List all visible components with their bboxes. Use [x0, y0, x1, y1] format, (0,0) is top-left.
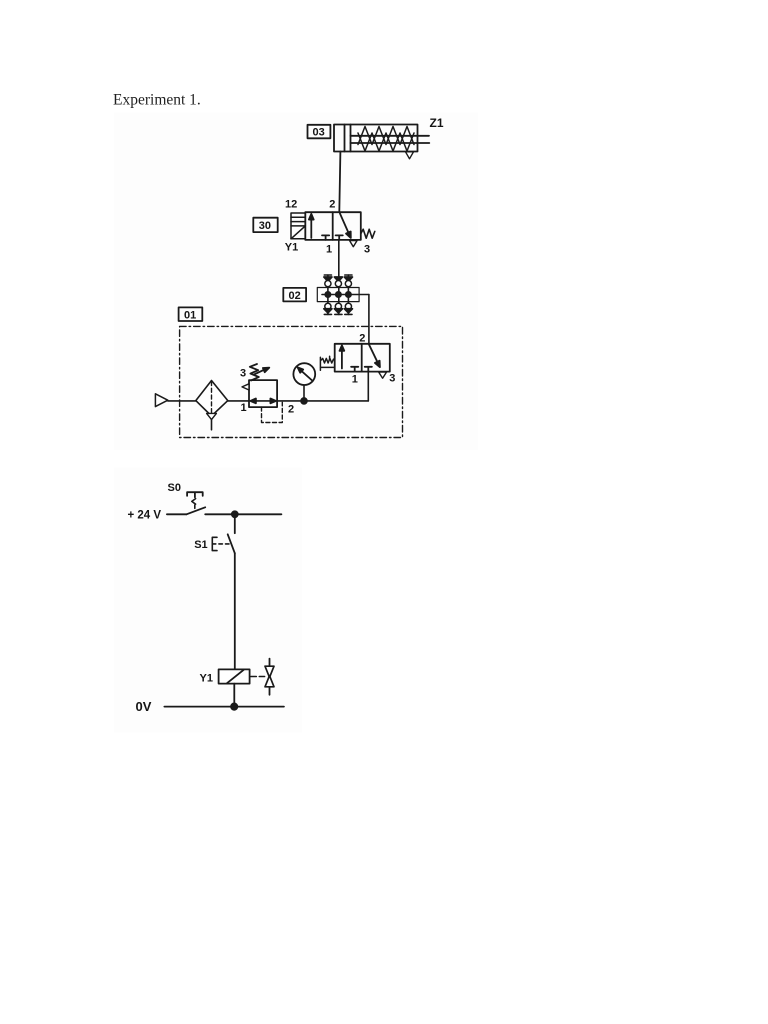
svg-text:12: 12 — [285, 199, 297, 211]
svg-text:3: 3 — [240, 368, 246, 380]
svg-text:Y1: Y1 — [285, 242, 298, 254]
svg-text:1: 1 — [326, 244, 332, 256]
svg-text:02: 02 — [289, 290, 301, 302]
svg-text:2: 2 — [288, 404, 294, 416]
svg-text:Z1: Z1 — [430, 116, 444, 130]
svg-text:03: 03 — [313, 127, 325, 139]
svg-text:S1: S1 — [194, 539, 207, 551]
svg-text:01: 01 — [184, 309, 196, 321]
svg-text:1: 1 — [352, 374, 358, 386]
svg-text:30: 30 — [259, 220, 271, 232]
svg-text:1: 1 — [241, 402, 247, 414]
svg-text:3: 3 — [389, 373, 395, 385]
svg-text:Experiment 1.: Experiment 1. — [113, 92, 201, 109]
svg-text:+ 24 V: + 24 V — [128, 510, 162, 522]
svg-text:2: 2 — [359, 333, 365, 345]
svg-text:2: 2 — [329, 199, 335, 211]
svg-text:3: 3 — [364, 244, 370, 256]
svg-text:0V: 0V — [136, 699, 152, 714]
svg-text:S0: S0 — [168, 482, 181, 494]
svg-text:Y1: Y1 — [200, 672, 213, 684]
